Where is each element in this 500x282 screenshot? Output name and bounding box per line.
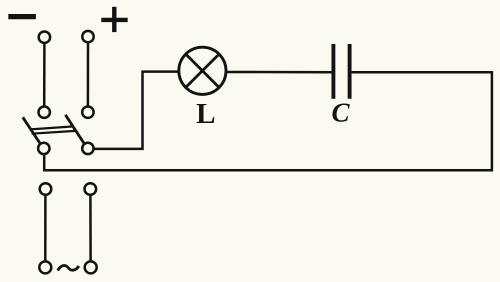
label L xyxy=(196,98,215,130)
AC right lead wire xyxy=(89,195,92,261)
AC tilde label xyxy=(58,266,79,271)
switch S right blade xyxy=(65,115,84,144)
switch S bottom-left contact xyxy=(38,143,49,154)
AC source lower-left terminal xyxy=(39,261,51,273)
lamp L symbol xyxy=(179,47,226,94)
capacitor C right plate xyxy=(348,44,352,99)
capacitor C left plate xyxy=(331,44,335,99)
label C xyxy=(332,98,351,128)
wire switch bottom-right to lamp (up via left riser) xyxy=(94,72,179,149)
switch S left blade xyxy=(23,117,40,143)
negative terminal xyxy=(39,32,50,43)
battery positive label + xyxy=(101,7,127,32)
AC source upper-left terminal xyxy=(40,183,52,195)
AC source upper-right terminal xyxy=(85,183,97,195)
wire positive terminal to switch xyxy=(87,43,90,107)
AC source lower-right terminal xyxy=(85,261,97,273)
positive terminal xyxy=(82,31,93,42)
switch S bottom-right contact xyxy=(82,143,93,154)
wire negative terminal to switch xyxy=(43,43,46,106)
battery negative label - xyxy=(8,14,36,19)
AC left lead wire xyxy=(44,195,47,261)
wire lamp to capacitor xyxy=(226,71,331,74)
wire switch bottom-left to bottom bus xyxy=(43,154,46,171)
switch S top-right contact xyxy=(82,107,93,118)
svg-text:L: L xyxy=(196,98,215,130)
switch S insulating link (double bar) xyxy=(30,126,75,133)
switch S top-left contact xyxy=(39,107,50,118)
svg-text:C: C xyxy=(332,98,351,128)
wire capacitor to right side, down and bottom bus back to switch xyxy=(43,72,492,170)
